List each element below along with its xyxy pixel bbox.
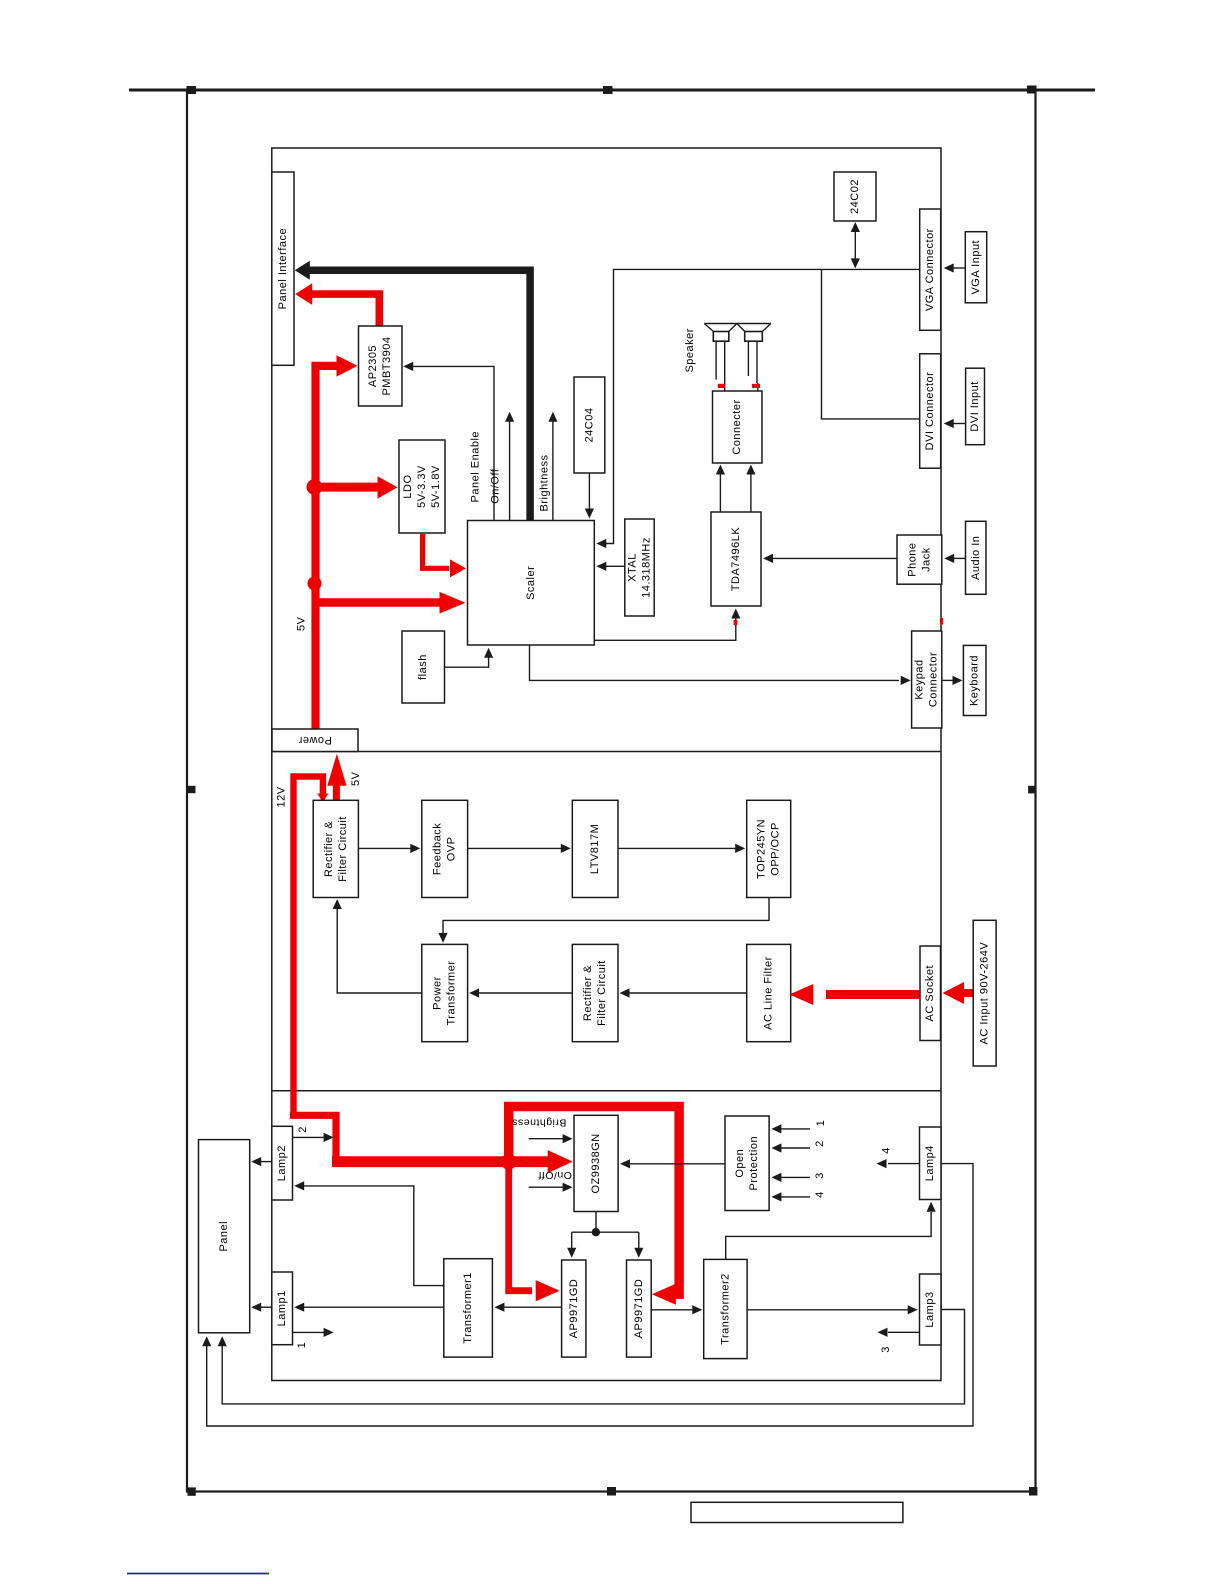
svg-text:Brightness: Brightness: [539, 455, 551, 512]
svg-text:AC Input 90V-264V: AC Input 90V-264V: [979, 942, 991, 1045]
wire Transformer2 to Lamp4: [726, 1202, 936, 1260]
svg-text:Connecter: Connecter: [731, 399, 743, 454]
optocoupler LTV817M: [572, 800, 618, 897]
connector VGA Connector: [920, 209, 941, 330]
red arrow AC Input to AC Socket: [943, 982, 974, 1004]
input AC Input 90V-264V: [973, 920, 996, 1066]
transistor AP2305 PMBT3904: [359, 326, 403, 406]
svg-text:5V: 5V: [350, 771, 362, 786]
wire Scaler audio to TDA7496LK: [594, 609, 740, 641]
wire Rectifier2 to Power Transformer: [469, 988, 572, 997]
board section divider 1: [272, 751, 941, 753]
svg-text:On/Off: On/Off: [538, 1169, 572, 1181]
svg-text:AP9971GD: AP9971GD: [568, 1279, 580, 1339]
wire AP9971GD2 to Transformer2: [651, 1305, 702, 1314]
transformer Transformer2: [704, 1259, 747, 1358]
transformer Transformer1: [444, 1259, 493, 1357]
wire LTV817M to TOP245YN: [618, 844, 745, 853]
svg-text:VGA Input: VGA Input: [970, 240, 982, 295]
svg-text:4: 4: [814, 1191, 826, 1198]
wire protection sense 3: [771, 1173, 810, 1182]
main board section frame: [272, 148, 941, 1381]
svg-text:XTAL: XTAL: [627, 553, 639, 582]
svg-text:DVI Connector: DVI Connector: [924, 372, 936, 451]
wire Transformer2 to Lamp3: [747, 1305, 918, 1314]
thick wire Scaler to Panel Interface: [295, 261, 530, 521]
wire VGA Input arrow: [944, 263, 966, 272]
svg-text:Power: Power: [432, 976, 444, 1010]
svg-text:1: 1: [296, 1342, 308, 1349]
wire lamp3 pin stub: [878, 1328, 920, 1337]
mosfet AP9971GD 2: [627, 1260, 652, 1357]
red wire AP2305 to Panel Interface: [295, 283, 379, 326]
svg-text:2: 2: [297, 1126, 309, 1133]
input Keyboard: [963, 645, 986, 715]
red branch to LDO: [315, 476, 398, 498]
svg-text:Speaker: Speaker: [684, 328, 696, 372]
wire AC Line Filter to Rectifier2: [620, 988, 747, 997]
red polarity tick right: [752, 384, 760, 388]
svg-text:AP9971GD: AP9971GD: [633, 1279, 645, 1339]
wire flash to Scaler: [445, 648, 494, 667]
block Feedback OVP: [422, 800, 468, 897]
red wire LDO to Scaler: [423, 533, 466, 577]
svg-text:Panel Enable: Panel Enable: [469, 431, 481, 502]
edge mark bottom-middle: [607, 1487, 616, 1496]
wire DVI Input arrow: [944, 419, 966, 428]
red tick on audio wire: [734, 620, 738, 625]
edge mark right-middle: [1028, 786, 1036, 794]
wire Lamp1 to Panel: [251, 1303, 272, 1312]
wire amp to connecter pin 2: [746, 465, 755, 513]
svg-text:1: 1: [815, 1120, 827, 1127]
svg-text:OVP: OVP: [446, 837, 458, 862]
wire Transformer1 to Lamp1: [294, 1303, 444, 1312]
svg-text:Transformer1: Transformer1: [462, 1272, 474, 1344]
svg-text:5V: 5V: [296, 616, 308, 631]
wire 24C02 bus: [851, 222, 860, 268]
board section divider 2: [272, 1090, 941, 1092]
tab Power: [272, 729, 358, 752]
wire Brightness stub: [548, 412, 557, 521]
corner mark bottom-left: [188, 1487, 196, 1495]
wire Keypad Connector to Keyboard: [942, 676, 963, 685]
svg-text:DVI Input: DVI Input: [969, 381, 981, 431]
wire lamp1 pin stub: [293, 1328, 334, 1337]
svg-text:Lamp3: Lamp3: [924, 1291, 936, 1327]
svg-text:Audio In: Audio In: [970, 536, 982, 580]
svg-text:Filter Circuit: Filter Circuit: [596, 960, 608, 1026]
svg-text:3: 3: [814, 1172, 826, 1179]
svg-text:Transformer2: Transformer2: [719, 1273, 731, 1345]
wire Open Protection to OZ9938GN: [620, 1159, 725, 1168]
transformer Power Transformer: [422, 944, 468, 1041]
wire protection sense 1: [771, 1124, 810, 1133]
footer rule: [127, 1573, 269, 1575]
svg-text:Phone: Phone: [906, 542, 918, 576]
svg-text:Open: Open: [734, 1149, 746, 1178]
svg-text:Jack: Jack: [920, 547, 932, 572]
connector Keypad Connector: [912, 631, 942, 728]
amplifier TDA7496LK: [711, 512, 761, 606]
wire Lamp2 to Panel: [251, 1157, 272, 1166]
red lower branch to AP9971GD 1: [509, 1162, 560, 1302]
svg-text:24C04: 24C04: [583, 408, 595, 443]
svg-text:Transformer: Transformer: [446, 961, 458, 1026]
svg-text:14.318MHz: 14.318MHz: [641, 537, 653, 598]
svg-text:Power: Power: [298, 734, 332, 746]
lamp Lamp2: [272, 1126, 293, 1200]
svg-text:Rectifier &: Rectifier &: [323, 821, 335, 877]
wire On/Off input: [529, 1183, 573, 1192]
svg-text:4: 4: [881, 1147, 893, 1154]
wire lamp4 pin stub: [877, 1159, 920, 1168]
wire Panel Enable: [403, 362, 494, 521]
wire AP9971GD1 to Transformer1: [494, 1303, 561, 1312]
svg-text:PMBT3904: PMBT3904: [381, 336, 393, 395]
red 12V run to OZ9938GN: [294, 1112, 573, 1173]
outer border frame: [187, 90, 1036, 1492]
wire Brightness input: [529, 1134, 573, 1143]
block Open Protection: [725, 1116, 769, 1211]
svg-text:VGA Connector: VGA Connector: [924, 228, 936, 311]
red upper branch to AP9971GD 2: [509, 1107, 679, 1305]
wire VGA Connector to Scaler: [596, 269, 919, 548]
junction dot B: [308, 577, 322, 591]
wire Lamp4 return loop: [202, 1164, 973, 1426]
wire OZ9938GN gate split: [567, 1212, 643, 1258]
svg-text:Panel: Panel: [218, 1221, 230, 1252]
red tick on frame edge: [940, 618, 943, 625]
wire protection sense 4: [771, 1192, 810, 1201]
red 5V output arrow: [327, 754, 346, 800]
title block box: [691, 1502, 903, 1522]
filter AC Line Filter: [747, 944, 791, 1041]
svg-text:flash: flash: [417, 654, 429, 680]
corner mark bottom-right: [1029, 1487, 1037, 1496]
wire amp to connecter pin 1: [716, 465, 725, 513]
wire protection sense 2: [771, 1143, 810, 1152]
svg-text:2: 2: [814, 1140, 826, 1147]
wire Audio In arrow: [944, 554, 965, 563]
wire lamp2 pin stub: [293, 1133, 334, 1142]
top rule line: [129, 89, 1095, 92]
svg-text:Panel Interface: Panel Interface: [277, 228, 289, 310]
svg-text:Lamp2: Lamp2: [276, 1145, 288, 1181]
wire DVI Connector branch: [822, 269, 920, 419]
svg-text:Scaler: Scaler: [525, 566, 537, 600]
wire Feedback to LTV817M: [468, 844, 571, 853]
connector AC Socket: [920, 946, 941, 1041]
lamp Lamp3: [920, 1274, 942, 1345]
svg-text:TDA7496LK: TDA7496LK: [730, 527, 742, 592]
wire Transformer1 to Lamp2: [294, 1181, 444, 1285]
svg-text:12V: 12V: [275, 786, 287, 807]
svg-text:Connector: Connector: [928, 652, 940, 707]
ic TOP245YN OPP/OCP: [747, 800, 791, 897]
memory flash: [402, 631, 445, 703]
svg-text:AC Socket: AC Socket: [924, 965, 936, 1021]
svg-text:3: 3: [880, 1346, 892, 1353]
svg-text:LDO: LDO: [402, 474, 414, 498]
ic Scaler: [468, 521, 595, 646]
input DVI Input: [966, 368, 985, 445]
wire On/Off stub: [505, 412, 514, 521]
wire Scaler to Keypad Connector: [530, 645, 911, 685]
wire Phone Jack to TDA7496LK: [763, 554, 897, 563]
svg-text:Keyboard: Keyboard: [969, 655, 981, 706]
wire Lamp3 return loop: [218, 1310, 965, 1404]
mosfet AP9971GD 1: [562, 1260, 586, 1357]
input Audio In: [966, 521, 987, 594]
edge mark top-middle: [603, 86, 613, 94]
wire XTAL to Scaler: [596, 562, 625, 571]
junction dot C: [501, 1154, 517, 1170]
jack Phone Jack: [897, 535, 942, 584]
block Rectifier Filter 2: [572, 944, 618, 1041]
svg-text:24C02: 24C02: [849, 179, 861, 214]
svg-text:LTV817M: LTV817M: [589, 824, 601, 874]
svg-text:Feedback: Feedback: [432, 823, 444, 875]
controller OZ9938GN: [574, 1115, 618, 1211]
connector DVI Connector: [920, 354, 941, 468]
red 12V wire: [294, 777, 329, 1116]
svg-text:Rectifier &: Rectifier &: [582, 965, 594, 1021]
crystal XTAL 14.318MHz: [625, 519, 654, 616]
svg-text:OZ9938GN: OZ9938GN: [590, 1133, 602, 1193]
red polarity tick left: [718, 384, 725, 388]
lamp Lamp4: [920, 1127, 942, 1200]
svg-text:Lamp1: Lamp1: [276, 1290, 288, 1326]
wire 24C04 to Scaler: [585, 473, 594, 519]
block Rectifier Filter 1: [313, 800, 358, 897]
corner mark top-left: [187, 86, 197, 94]
svg-text:Brightness: Brightness: [512, 1117, 567, 1129]
svg-text:5V-1.8V: 5V-1.8V: [430, 465, 442, 508]
eeprom 24C04: [574, 377, 605, 473]
svg-text:AC Line Filter: AC Line Filter: [763, 956, 775, 1030]
red 5V trunk wire and branch to AP2305: [316, 355, 358, 729]
lamp Lamp1: [272, 1272, 293, 1345]
svg-text:Filter Circuit: Filter Circuit: [337, 816, 349, 882]
panel Panel: [199, 1140, 250, 1333]
svg-text:AP2305: AP2305: [367, 345, 379, 387]
svg-text:5V-3.3V: 5V-3.3V: [416, 465, 428, 508]
svg-text:Protection: Protection: [748, 1136, 760, 1191]
svg-text:On/Off: On/Off: [490, 468, 502, 504]
svg-text:Lamp4: Lamp4: [924, 1145, 936, 1181]
input VGA Input: [965, 232, 986, 303]
connector Panel Interface: [272, 172, 294, 365]
red arrow AC Socket to AC Line Filter: [789, 984, 919, 1005]
wire TOP245YN to Power Transformer: [438, 898, 769, 943]
connector speaker Connecter: [713, 391, 763, 463]
wire Rectifier1 to Feedback: [358, 844, 420, 853]
svg-text:TOP245YN: TOP245YN: [756, 819, 768, 879]
speaker left symbol: [704, 324, 737, 391]
regulator LDO: [399, 440, 445, 533]
svg-text:OPP/OCP: OPP/OCP: [770, 822, 782, 876]
svg-text:Keypad: Keypad: [914, 659, 926, 699]
junction dot A: [307, 479, 323, 495]
corner mark top-right: [1027, 86, 1037, 94]
eeprom 24C02: [834, 172, 876, 221]
edge mark left-middle: [188, 786, 196, 793]
wire Power Transformer to Rectifier1: [333, 899, 422, 993]
red 5V branch to Scaler: [315, 592, 466, 614]
speaker right symbol: [737, 324, 771, 391]
